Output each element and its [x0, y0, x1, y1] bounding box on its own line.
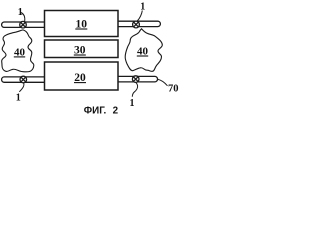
caption FIG. 2: [84, 106, 119, 117]
valve bottom-left: [20, 76, 27, 83]
leader line label 1 top-right: [137, 11, 142, 22]
reservoir blob 40 left: [2, 30, 34, 72]
label 10: [75, 18, 87, 30]
block 20: [45, 62, 119, 90]
leader line label 1 top-left: [21, 13, 25, 22]
label 40 right: [137, 45, 149, 57]
pipe top-left: [2, 22, 45, 27]
valve top-right: [133, 21, 140, 28]
svg-text:70: 70: [168, 83, 179, 94]
label 40 left: [14, 46, 26, 58]
block 30: [45, 40, 119, 58]
pipe bottom-right: [118, 76, 158, 82]
leader line label 70: [158, 79, 168, 85]
valve top-left: [20, 21, 27, 28]
block 10: [45, 11, 119, 37]
svg-text:1: 1: [130, 98, 135, 109]
svg-text:1: 1: [18, 7, 23, 18]
pipe bottom-left: [2, 77, 45, 82]
svg-text:1: 1: [16, 92, 21, 103]
svg-text:1: 1: [140, 2, 145, 13]
leader line label 1 bottom-right: [132, 82, 137, 97]
svg-text:ФИГ.: ФИГ.: [84, 106, 107, 117]
leader line label 1 bottom-left: [19, 83, 24, 92]
valve bottom-right: [132, 76, 139, 83]
label 20: [74, 72, 86, 84]
reservoir blob 40 right: [125, 29, 162, 72]
svg-text:2: 2: [113, 106, 119, 117]
label 30: [74, 44, 86, 56]
pipe top-right: [118, 21, 161, 26]
